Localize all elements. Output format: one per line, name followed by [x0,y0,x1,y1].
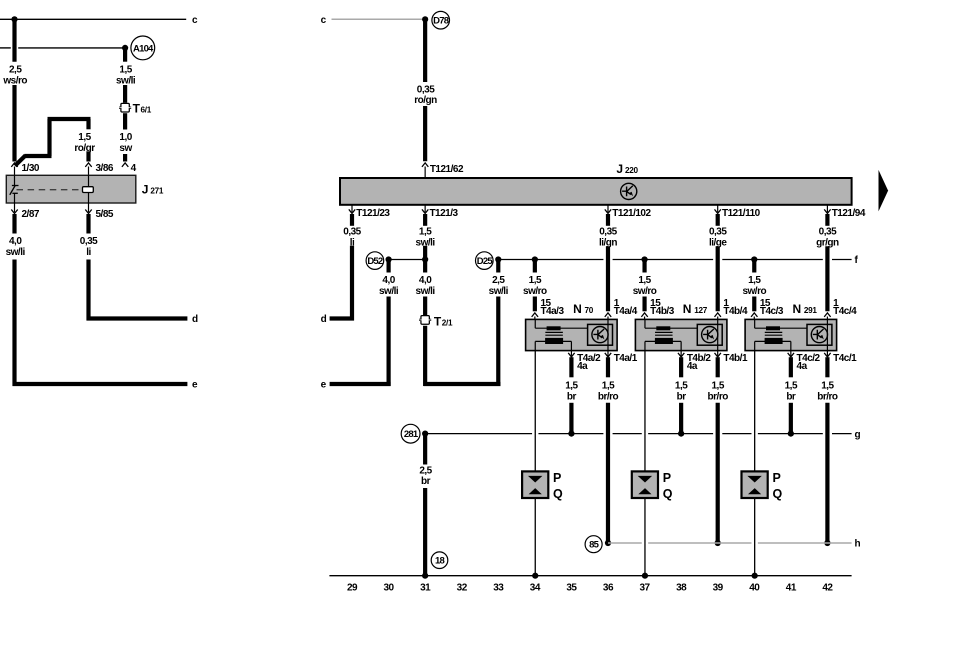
node br/ro on h [715,540,721,546]
svg-text:0,35: 0,35 [819,227,837,238]
wire 2,5 ws/ro upper segment [12,19,16,61]
coil 1 pin1 internal line [607,319,609,350]
wire 4,0 sw/li down to e [12,260,16,387]
wire 1,0 sw lower [123,154,127,162]
wire 1,5 br coil 3 to g [789,403,793,434]
pin arrow T4b/1 [717,351,719,356]
spark plug symbol Q 3 [748,488,761,494]
pin arrow 15 T4b/3 [641,313,647,317]
pin arrow T4a/2 [570,351,572,356]
wire 1,5 br/ro coil 3 upper [825,357,829,377]
svg-text:2/87: 2/87 [22,209,40,220]
svg-text:36: 36 [603,582,614,593]
svg-text:220: 220 [625,166,639,175]
node on f [641,256,647,262]
svg-text:e: e [321,380,327,391]
svg-text:2,5: 2,5 [492,275,505,286]
svg-text:Q: Q [553,487,563,501]
svg-text:P: P [663,471,671,485]
wire D52 link [389,259,426,261]
coil 1 core [545,331,563,333]
plug connector symbol P 3 [747,476,761,483]
wire bus h (screened) [608,542,642,544]
wire 1,5 br/ro coil 2 to h [716,403,720,543]
spark plug lead 3 upper [754,351,756,472]
svg-text:T121/110: T121/110 [722,208,761,219]
svg-text:1,0: 1,0 [119,132,132,143]
wire ro/gr right drop lower [86,151,90,161]
node on f [532,256,538,262]
coil 2 primary feed line [644,319,646,328]
svg-text:D52: D52 [367,256,383,267]
svg-text:4a: 4a [687,361,698,372]
wire bus f [498,259,603,261]
wire e run (left) [13,382,188,386]
wire e run B (mid) [424,382,501,386]
wire 0,35 li upper [86,214,90,234]
node D78 tap [422,16,428,22]
wire 0,35 li upper segment [350,214,354,226]
svg-text:br/ro: br/ro [598,391,619,402]
svg-text:1,5: 1,5 [78,132,91,143]
svg-text:N: N [683,302,692,316]
svg-text:1,5: 1,5 [675,380,688,391]
spark plug lead 2 upper [644,351,646,472]
svg-text:291: 291 [804,306,818,315]
node on c bus at ws/ro wire [11,16,17,22]
svg-text:br: br [567,391,577,402]
pin arrow 2/87 [14,203,16,212]
svg-text:T4b/4: T4b/4 [723,306,748,317]
svg-text:30: 30 [384,582,395,593]
plug connector symbol P 2 [638,476,652,483]
ignition coil N127 box [635,319,727,350]
wire 2,5 br to ground [423,488,427,576]
svg-text:4,0: 4,0 [9,236,22,247]
svg-text:h: h [855,539,861,550]
svg-text:281: 281 [404,429,419,440]
coil 3 secondary winding [765,338,783,344]
svg-text:1,5: 1,5 [419,227,432,238]
wire 1,5 sw/li upper segment [423,214,427,226]
svg-text:1,5: 1,5 [119,65,132,76]
connector T6/1 [120,103,131,113]
pin arrow 15 T4c/3 [751,313,757,317]
svg-text:0,35: 0,35 [417,85,435,96]
wire 1,0 sw upper [123,113,127,129]
spark plug lead 1 lower [534,498,536,576]
wire 4,0 sw/li below T2/1 [423,326,427,386]
svg-text:42: 42 [822,582,833,593]
coil 1 primary winding [547,326,561,330]
wire 0,35 coil 2 pin1 lower [716,246,720,311]
wire 0,35 li (mid) to d [350,246,354,321]
wire 1,5 sw/li to node [423,246,427,260]
svg-text:3/86: 3/86 [96,163,114,174]
svg-text:c: c [192,15,198,26]
pin arrow T4a/1 [607,351,609,356]
svg-text:ws/ro: ws/ro [2,76,27,87]
spark plug symbol Q 1 [529,488,542,494]
wire 0,35 ro/gn upper [423,19,427,82]
wire 2,5 ws/ro lower segment [12,85,16,162]
svg-text:br: br [786,391,796,402]
wire 1,5 br/ro coil 2 upper [716,357,720,377]
wire 1,5 sw/ro coil 1 lower [533,297,537,312]
svg-text:40: 40 [749,582,760,593]
pin arrow 3/86 [85,163,91,167]
pin arrow T121/94 [826,205,828,213]
pin arrow T121/23 [351,205,353,213]
svg-text:271: 271 [150,187,164,196]
spark plug lead 2 lower [644,498,646,576]
svg-text:ro/gn: ro/gn [414,95,437,106]
wire 0,35 li/ge upper segment [716,214,720,226]
pin arrow 15 T4a/3 [532,313,538,317]
node T121/3 junction [422,256,428,262]
coil 2 driver stage box [697,324,722,345]
wire 0,35 li/gn upper segment [606,214,610,226]
spark plug connector/plug P Q box 2 [632,471,658,498]
svg-text:70: 70 [585,306,594,315]
J271 switch contact [14,175,16,185]
spark plug connector/plug P Q box 3 [742,471,768,498]
svg-text:sw/ro: sw/ro [523,286,547,297]
svg-text:1,5: 1,5 [529,275,542,286]
wire 1,5 br/ro coil 1 to h [606,403,610,543]
coil 1 secondary output line [535,340,571,342]
svg-text:d: d [192,314,198,325]
node br on g [568,431,574,437]
svg-text:T4c/1: T4c/1 [833,353,857,364]
J271 coil pin lines [88,175,90,186]
svg-text:2,5: 2,5 [9,65,22,76]
svg-text:D25: D25 [477,256,494,267]
svg-text:1/30: 1/30 [22,163,40,174]
svg-text:41: 41 [786,582,797,593]
node br on g [788,431,794,437]
relay J271 box [6,175,136,203]
svg-text:4,0: 4,0 [382,275,395,286]
svg-text:1,5: 1,5 [638,275,651,286]
coil 3 core [765,331,783,333]
svg-text:1,5: 1,5 [711,380,724,391]
node 281 [422,431,428,437]
wire 1,5 br coil 3 upper [789,357,793,377]
wire 1,5 br coil 1 upper [569,357,573,377]
spark plug symbol Q 2 [638,488,651,494]
coil 1 primary feed line [534,319,536,328]
svg-text:T121/62: T121/62 [430,164,464,175]
coil 2 primary winding [656,326,670,330]
svg-text:1,5: 1,5 [748,275,761,286]
svg-text:d: d [321,314,327,325]
svg-text:1,5: 1,5 [821,380,834,391]
pin arrow 1 T4a/4 [605,313,611,317]
coil 2 core [655,331,673,333]
ignition coil N70 box [526,319,618,350]
svg-text:sw/ro: sw/ro [742,286,766,297]
svg-text:4: 4 [131,163,137,174]
coil 3 primary winding [766,326,780,330]
wire 2,5 sw/li upper [496,260,500,273]
pin arrow T121/110 [717,205,719,213]
coil 1 secondary winding [545,338,563,344]
svg-text:P: P [553,471,561,485]
svg-text:31: 31 [420,582,431,593]
svg-text:0,35: 0,35 [709,227,727,238]
coil 3 K symbol [811,327,827,343]
svg-text:sw/li: sw/li [379,286,399,297]
wire 4,0 sw/li upper [12,214,16,234]
svg-text:P: P [772,471,780,485]
svg-text:34: 34 [530,582,541,593]
wire 0,35 ro/gn lower [423,106,427,161]
wire d run (mid) [330,316,354,320]
svg-text:sw/li: sw/li [489,286,509,297]
svg-text:T121/3: T121/3 [429,208,458,219]
node spark lead on rail [642,573,648,579]
svg-text:N: N [573,302,582,316]
svg-text:sw/ro: sw/ro [633,286,657,297]
J271 relay coil [83,187,94,193]
node br/ro on h [605,540,611,546]
wire 0,35 li down to d [86,260,90,321]
svg-text:br/ro: br/ro [708,391,729,402]
coil 1 K symbol [592,327,608,343]
wire d run (left) [87,316,188,320]
coil 2 K symbol [702,327,718,343]
node D25 [495,256,501,262]
svg-text:Q: Q [663,487,673,501]
wire e run A (mid) [330,382,391,386]
svg-text:J: J [616,162,623,176]
svg-text:18: 18 [435,556,444,567]
svg-text:4a: 4a [797,361,808,372]
pin arrow T121/62 [422,163,428,167]
connector T2/1 [420,315,431,325]
svg-text:1,5: 1,5 [565,380,578,391]
wire c bus (mid, screened) [332,18,426,20]
svg-text:T4a/4: T4a/4 [614,306,638,317]
svg-text:ro/gr: ro/gr [74,143,95,154]
svg-text:T4a/1: T4a/1 [614,353,638,364]
coil 2 secondary output line [645,340,681,342]
node br on g [678,431,684,437]
wire 4,0 sw/li (D52) upper [387,260,391,273]
svg-text:38: 38 [676,582,687,593]
svg-text:li: li [86,247,91,258]
svg-text:br: br [421,476,431,487]
svg-text:T4b/1: T4b/1 [723,353,748,364]
svg-text:br: br [677,391,687,402]
coil 3 primary feed line [754,319,756,328]
wire 1,5 sw/ro coil 3 lower [752,297,756,312]
wire 1,5 br coil 2 upper [679,357,683,377]
svg-text:2/1: 2/1 [442,318,453,327]
wire ro/gr left drop [47,119,51,156]
wire ro/gr diagonal to 1/30 [15,156,25,166]
node D52 [386,256,392,262]
svg-text:T121/23: T121/23 [356,208,390,219]
pin arrow T4c/1 [826,351,828,356]
wire 0,35 coil 1 pin1 lower [606,246,610,311]
pin arrow 1 T4c/4 [824,313,830,317]
ECU J220 box [340,178,852,205]
plug connector symbol P 1 [528,476,542,483]
svg-text:e: e [192,380,198,391]
J271 armature dashed link [17,189,83,191]
spark plug lead 1 upper [534,351,536,472]
node A104 tap [122,45,128,51]
wire 1,5 sw/ro coil 3 upper [752,260,756,273]
svg-text:J: J [142,183,149,197]
wire 1,5 br/ro coil 1 upper [606,357,610,377]
svg-text:T4b/3: T4b/3 [650,306,675,317]
svg-text:sw/li: sw/li [6,247,26,258]
svg-text:T4c/4: T4c/4 [833,306,857,317]
wire 4,0 sw/li (T2/1) upper [423,260,427,273]
pin arrow T121/3 [424,205,426,213]
node br/ro on h [824,540,830,546]
svg-text:c: c [321,15,327,26]
wire 1,5 sw/ro coil 2 upper [642,260,646,273]
svg-text:T: T [133,102,141,116]
spark plug lead 3 lower [754,498,756,576]
svg-text:T121/102: T121/102 [612,208,651,219]
svg-text:0,35: 0,35 [80,236,98,247]
svg-text:N: N [793,302,802,316]
svg-text:0,35: 0,35 [599,227,617,238]
plug connection D25 [476,252,494,270]
svg-text:4a: 4a [577,361,588,372]
svg-text:35: 35 [566,582,577,593]
ignition coil N291 box [745,319,837,350]
ground point 85 [585,536,602,553]
pin arrow T4b/2 [680,351,682,356]
svg-text:sw/li: sw/li [416,286,436,297]
coil 3 driver stage box [807,324,832,345]
pin arrow 1 T4b/4 [715,313,721,317]
plug connection D52 [366,252,384,270]
wire 1,5 sw/li to T6/1 [123,85,127,103]
svg-text:0,35: 0,35 [343,227,361,238]
plug connection A104 [131,36,155,60]
svg-text:37: 37 [639,582,650,593]
wire c bus (left) [0,18,186,20]
wire 0,35 gr/gn upper segment [825,214,829,226]
coil 2 secondary winding [655,338,673,344]
svg-text:T4c/3: T4c/3 [760,306,784,317]
pin arrow T121/102 [607,205,609,213]
plug connection D78 [432,11,450,29]
wire 1,5 br coil 1 to g [569,403,573,434]
bottom current track rail [329,575,851,577]
wire 2,5 sw/li to e [496,297,500,387]
svg-text:85: 85 [589,540,599,551]
coil 3 secondary output line [755,340,791,342]
svg-text:39: 39 [713,582,724,593]
J220 output arrow [879,170,889,212]
wire ro/gr right drop upper [86,119,90,129]
pin arrow 1/30 [11,163,17,167]
svg-text:T: T [434,314,442,328]
svg-text:sw: sw [119,143,132,154]
pin arrow T4c/2 [790,351,792,356]
svg-text:T4a/3: T4a/3 [540,306,564,317]
wire 1,5 sw/ro coil 2 lower [642,297,646,312]
svg-text:T121/94: T121/94 [832,208,866,219]
wire 4,0 sw/li to T2/1 [423,297,427,316]
wire 1,5 br coil 2 to g [679,403,683,434]
svg-text:29: 29 [347,582,358,593]
spark plug connector/plug P Q box 1 [522,471,548,498]
svg-text:D78: D78 [433,16,449,27]
svg-text:A104: A104 [133,43,154,54]
svg-text:g: g [855,429,861,440]
svg-text:127: 127 [694,306,708,315]
svg-text:br/ro: br/ro [817,391,838,402]
wire to A104 [0,47,11,49]
svg-text:32: 32 [457,582,468,593]
coil 1 driver stage box [588,324,613,345]
pin arrow 5/85 [88,203,90,212]
J220 K symbol [621,183,637,199]
pin arrow 4 [122,163,128,167]
svg-text:33: 33 [493,582,504,593]
ground point 18 [431,552,448,569]
ground point 281 [401,424,420,443]
wire ro/gr horizontal jog [24,154,51,158]
node on f [751,256,757,262]
node spark lead on rail [532,573,538,579]
wire 2,5 br upper [423,434,427,465]
svg-text:4,0: 4,0 [419,275,432,286]
wire bus g [425,433,532,435]
node spark lead on rail [752,573,758,579]
svg-text:f: f [855,255,859,266]
svg-text:1,5: 1,5 [602,380,615,391]
svg-text:1,5: 1,5 [785,380,798,391]
wire 4,0 sw/li (D52) to e [387,297,391,387]
wire 1,5 br/ro coil 3 to h [825,403,829,543]
coil 2 pin1 internal line [717,319,719,350]
svg-text:sw/li: sw/li [116,76,136,87]
wire 1,5 ro/gr bridge bar [48,117,91,121]
svg-text:5/85: 5/85 [96,209,114,220]
wire 1,5 sw/li from A104 [123,48,127,62]
svg-text:Q: Q [772,487,782,501]
wire 1,5 sw/ro coil 1 upper [533,260,537,273]
svg-text:6/1: 6/1 [141,106,152,115]
coil 3 pin1 internal line [826,319,828,350]
wire 0,35 coil 3 pin1 lower [825,246,829,311]
